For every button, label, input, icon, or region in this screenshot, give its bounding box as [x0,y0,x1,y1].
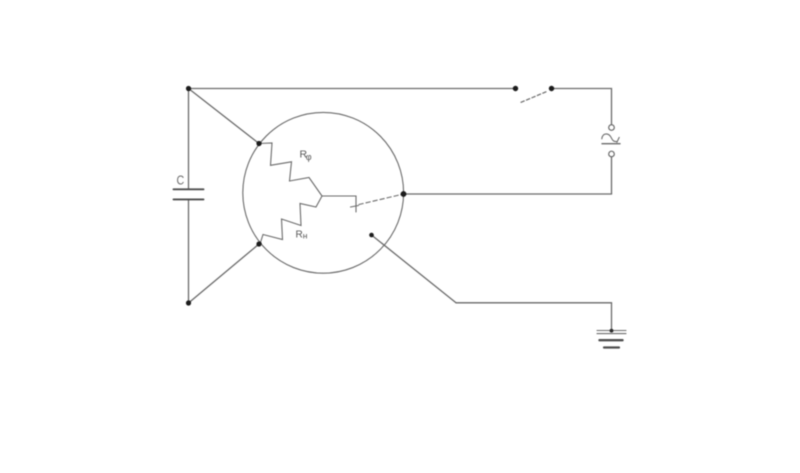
svg-text:н: н [303,231,308,241]
node potentiometer lower terminal [256,241,261,246]
wire ground drop [611,303,613,331]
capacitor C plates [174,189,204,199]
wiper contact tick [351,206,359,208]
wiper arm [322,196,356,212]
switch S blade (dashed) [521,91,548,102]
node bottom-left junction [186,300,191,305]
wire inner tap diagonal [372,235,457,303]
wire left rail lower (capacitor to bottom node) [188,200,190,303]
node switch left contact [513,86,518,91]
pressure-contact symbol arrow tick [617,137,619,142]
connector terminal circle top [609,125,615,131]
wire right vertical (middle rail to connector) [611,157,613,194]
connector terminal circle bottom [609,151,615,157]
wire middle rail [404,193,612,195]
wire top rail [189,88,516,90]
wire switch to corner [552,89,612,125]
wiper dashed link to output node [359,194,404,205]
node inner tap [369,233,374,238]
wire diagonal upper-left [189,89,260,144]
pressure-contact symbol curve [602,134,617,142]
svg-text:φ: φ [306,152,312,162]
pressure-contact symbol base line [602,143,620,145]
node switch right contact [549,86,554,91]
wire diagonal lower-left [189,244,260,303]
node wiper output [401,191,407,197]
node top-left junction [186,86,191,91]
resistor Rphi (upper zigzag) [259,143,322,196]
wire left rail upper (node to capacitor) [188,89,190,189]
ground symbol [597,331,626,348]
wire bottom rail [456,302,612,304]
svg-text:R: R [296,230,303,241]
node ground junction [610,329,614,333]
node potentiometer upper terminal [256,141,261,146]
potentiometer housing circle [243,112,404,273]
resistor Rn (lower zigzag) [260,196,322,244]
svg-text:C: C [177,172,185,187]
